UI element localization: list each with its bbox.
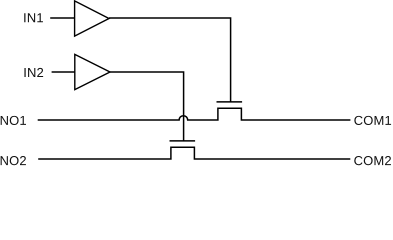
wire NO1 to COM1 with hop over M2 gate wire and transistor M1 channel xyxy=(38,108,351,120)
node NO1 label xyxy=(1,116,26,125)
node IN2 label xyxy=(24,68,43,77)
transistor M1 gate bar xyxy=(217,101,243,103)
node COM1 label xyxy=(354,116,391,125)
node COM2 label xyxy=(354,156,391,165)
buffer U2 (IN2 driver) xyxy=(75,54,110,89)
wire NO2 to COM2 and transistor M2 channel xyxy=(38,147,350,159)
wire IN1 input xyxy=(50,17,74,19)
wire U1 output to transistor M1 gate xyxy=(109,18,231,102)
transistor M2 gate bar xyxy=(170,140,196,142)
node IN1 label xyxy=(24,13,43,22)
wire U2 output to transistor M2 gate, crossing under NO1 xyxy=(110,72,184,141)
node NO2 label xyxy=(1,156,26,165)
buffer U1 (IN1 driver) xyxy=(75,1,109,36)
wire IN2 input xyxy=(52,71,75,73)
